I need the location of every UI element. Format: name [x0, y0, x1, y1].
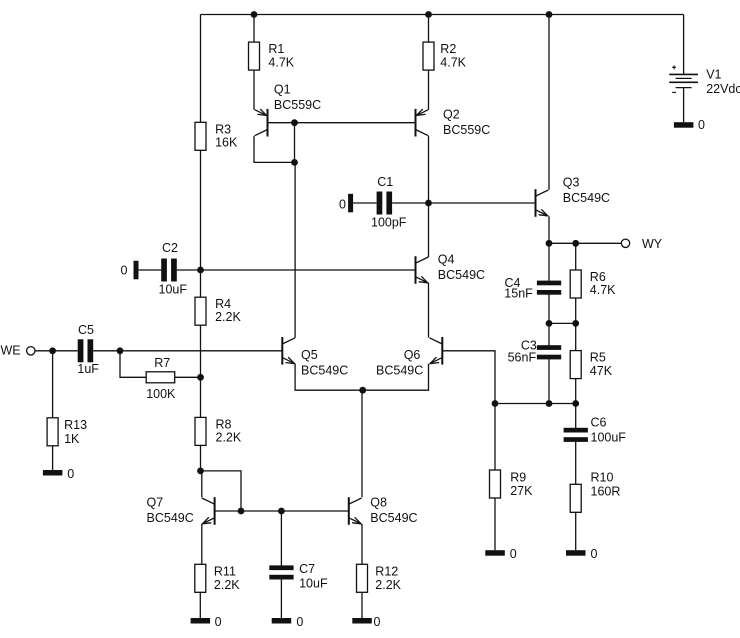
- terminal WE input: [1, 343, 36, 357]
- svg-text:C6: C6: [591, 416, 607, 430]
- junction C7-base wire: [278, 508, 285, 515]
- wire Q1 collector down to node: [254, 136, 295, 163]
- svg-text:2.2K: 2.2K: [215, 310, 241, 324]
- battery V1 22Vdc: [669, 65, 740, 96]
- wire Q7 base to Q8 base: [215, 510, 349, 512]
- svg-text:R12: R12: [375, 564, 398, 578]
- wire R1 to Q1 emitter: [253, 70, 255, 110]
- wire R2 to Q2 emitter: [428, 70, 430, 110]
- resistor R10 160R: [570, 470, 620, 512]
- svg-text:0: 0: [121, 263, 128, 277]
- wire Q6 base to feedback node: [442, 351, 495, 404]
- wire 0-stub to C1: [353, 202, 377, 204]
- transistor Q4 BC549C npn: [416, 252, 486, 284]
- svg-text:Q5: Q5: [301, 348, 318, 362]
- ground 0 below R11: [191, 615, 222, 629]
- wire rail to R3: [200, 15, 202, 123]
- junction Q1 collector node: [291, 159, 298, 166]
- ground 0 below C7: [272, 615, 304, 629]
- capacitor C5 1uF: [77, 323, 99, 376]
- node 0 stub at C2: [121, 261, 139, 280]
- wire rail to R1: [253, 15, 255, 43]
- resistor R12 2.2K: [357, 564, 402, 592]
- ground 0 below R9: [485, 547, 517, 561]
- svg-text:BC549C: BC549C: [370, 511, 417, 525]
- svg-text:0: 0: [215, 615, 222, 629]
- resistor R5 47K: [570, 351, 613, 379]
- ground 0 below R12: [352, 615, 380, 629]
- wire Q2 collector to C1 node: [428, 136, 430, 203]
- capacitor C7 10uF: [269, 562, 328, 590]
- svg-text:BC549C: BC549C: [301, 364, 348, 378]
- junction R5-C6: [572, 400, 579, 407]
- wire C5 to Q5 base: [93, 350, 282, 352]
- resistor R6 4.7K: [570, 270, 616, 298]
- svg-text:Q3: Q3: [563, 175, 580, 189]
- svg-text:0: 0: [67, 467, 74, 481]
- svg-text:R9: R9: [510, 470, 526, 484]
- wire Q4 emitter to Q6 collector: [428, 283, 430, 338]
- svg-text:R10: R10: [591, 470, 614, 484]
- wire V1 positive lead: [683, 15, 685, 75]
- svg-text:R6: R6: [590, 270, 606, 284]
- wire 0-stub to C2: [139, 269, 162, 271]
- svg-text:WE: WE: [1, 343, 21, 357]
- wire R12 to ground: [361, 592, 363, 618]
- svg-text:R3: R3: [215, 123, 231, 137]
- wire node to R9: [494, 404, 496, 471]
- svg-text:R11: R11: [214, 564, 236, 578]
- svg-text:47K: 47K: [590, 364, 613, 378]
- svg-text:1K: 1K: [64, 432, 80, 446]
- svg-text:0: 0: [510, 547, 517, 561]
- junction R7-column: [197, 374, 204, 381]
- junction R9-node: [492, 400, 499, 407]
- wire mid node to R6-R5 node: [549, 322, 576, 324]
- svg-text:Q2: Q2: [443, 107, 460, 121]
- svg-text:0: 0: [296, 615, 303, 629]
- junction output-R6: [572, 240, 579, 247]
- svg-text:22Vdc: 22Vdc: [706, 82, 740, 96]
- wire bottom feedback node: [495, 403, 576, 405]
- wire Q6 emitter to shared node: [363, 364, 429, 390]
- wire output node to R6: [575, 243, 577, 270]
- svg-text:BC549C: BC549C: [147, 511, 194, 525]
- svg-text:BC549C: BC549C: [563, 191, 610, 205]
- wire rail to Q3 collector: [548, 15, 550, 190]
- svg-text:BC549C: BC549C: [376, 364, 423, 378]
- junction R8-Q7: [197, 468, 204, 475]
- wire C6 to R10: [575, 442, 577, 484]
- svg-text:1uF: 1uF: [77, 362, 99, 376]
- resistor R9 27K: [490, 470, 534, 498]
- transistor Q7 BC549C npn: [147, 496, 215, 525]
- junction R6-R5: [572, 320, 579, 327]
- wire R5 to bottom node: [575, 379, 577, 404]
- wire C4 to mid node: [548, 294, 550, 323]
- resistor R13 1K: [47, 418, 87, 446]
- svg-text:C5: C5: [78, 323, 94, 337]
- wire node to Q3 base: [429, 202, 536, 204]
- svg-text:R7: R7: [154, 356, 170, 370]
- svg-text:0: 0: [698, 118, 705, 132]
- transistor Q3 BC549C npn: [536, 175, 611, 216]
- junction rail-Q3: [546, 11, 553, 18]
- svg-text:BC559C: BC559C: [443, 123, 490, 137]
- wire R8 to Q7 collector node: [200, 445, 202, 471]
- svg-text:R4: R4: [215, 297, 231, 311]
- wire collector-base tie Q7: [201, 471, 242, 511]
- transistor Q8 BC549C npn: [349, 496, 418, 525]
- svg-text:0: 0: [339, 198, 346, 212]
- resistor R7 100K: [146, 356, 176, 401]
- capacitor C3 56nF: [508, 338, 562, 364]
- resistor R3 16K: [195, 122, 238, 150]
- junction output-C4: [546, 240, 553, 247]
- svg-text:100K: 100K: [146, 387, 176, 401]
- svg-text:R8: R8: [216, 418, 232, 432]
- svg-text:0: 0: [374, 615, 381, 629]
- node 0 stub at C1: [339, 194, 353, 213]
- wire Q8 emitter to R12: [361, 524, 363, 564]
- junction C5-R7: [117, 347, 124, 354]
- wire node down to R7: [120, 351, 146, 378]
- wire node to C6: [575, 404, 577, 429]
- wire R3 to R4: [200, 150, 202, 297]
- terminal WY output: [621, 237, 662, 251]
- resistor R8 2.2K: [195, 417, 242, 445]
- svg-text:4.7K: 4.7K: [440, 55, 466, 69]
- junction WE-R13: [49, 347, 56, 354]
- wire node to C7: [280, 511, 282, 566]
- transistor Q5 BC549C npn: [282, 337, 348, 378]
- wire C1 to node: [392, 202, 428, 204]
- wire V1 negative lead: [683, 88, 685, 123]
- wire output node to WY terminal: [549, 242, 621, 244]
- capacitor C2 10uF: [159, 241, 188, 296]
- resistor R4 2.2K: [195, 297, 241, 325]
- svg-text:16K: 16K: [215, 136, 238, 150]
- svg-text:Q4: Q4: [438, 252, 455, 266]
- svg-text:10uF: 10uF: [299, 576, 328, 590]
- svg-text:2.2K: 2.2K: [214, 578, 240, 592]
- wire Q5 collector up to Q1 node: [294, 162, 296, 337]
- svg-text:C2: C2: [162, 241, 178, 255]
- wire R13 to ground: [52, 446, 54, 470]
- wire R10 to ground: [575, 512, 577, 550]
- resistor R1 4.7K: [249, 42, 295, 70]
- svg-text:0: 0: [591, 547, 598, 561]
- junction rail-R2: [425, 11, 432, 18]
- svg-text:2.2K: 2.2K: [216, 431, 242, 445]
- capacitor C4 15nF: [504, 276, 561, 301]
- capacitor C6 100uF: [564, 416, 627, 445]
- svg-text:56nF: 56nF: [508, 351, 537, 365]
- wire node to Q8 collector: [361, 390, 363, 497]
- wire node to Q4 collector: [428, 203, 430, 257]
- svg-text:100pF: 100pF: [371, 216, 407, 230]
- svg-text:2.2K: 2.2K: [375, 578, 401, 592]
- wire Q7 emitter to R11: [201, 524, 203, 564]
- wire Q7 collector up: [201, 471, 203, 497]
- junction rail-R1: [251, 11, 258, 18]
- wire R7 to R4-R8 column: [175, 376, 201, 378]
- wire Q3 emitter to output node: [548, 216, 550, 243]
- wire rail to R2: [428, 15, 430, 43]
- wire node to R13: [52, 351, 54, 418]
- wire WE to C5: [35, 350, 78, 352]
- ground 0 below R13: [43, 467, 74, 481]
- ground 0 below V1: [674, 118, 705, 132]
- svg-text:BC559C: BC559C: [274, 98, 321, 112]
- wire R6 to R5: [575, 298, 577, 351]
- wire base-collector tie Q1: [294, 123, 296, 163]
- transistor Q6 BC549C npn: [376, 337, 442, 378]
- transistor Q1 BC559C pnp: [255, 82, 321, 136]
- wire R11 to ground: [199, 592, 201, 618]
- wire C7 to ground: [280, 579, 282, 618]
- svg-text:R2: R2: [440, 42, 456, 56]
- svg-text:C1: C1: [377, 175, 393, 189]
- svg-text:10uF: 10uF: [159, 283, 188, 297]
- svg-text:R5: R5: [590, 351, 606, 365]
- ground 0 below R10: [566, 547, 598, 561]
- svg-text:Q1: Q1: [274, 82, 291, 96]
- svg-text:C7: C7: [299, 562, 315, 576]
- wire C3 to bottom node: [548, 359, 550, 404]
- svg-text:27K: 27K: [510, 484, 533, 498]
- capacitor C1 100pF: [371, 175, 407, 230]
- wire mid node to C3: [548, 323, 550, 345]
- svg-text:15nF: 15nF: [504, 287, 533, 301]
- resistor R2 4.7K: [423, 42, 467, 70]
- svg-text:Q7: Q7: [147, 496, 164, 510]
- transistor Q2 BC559C pnp: [416, 107, 491, 136]
- svg-text:160R: 160R: [591, 485, 621, 499]
- junction C2-R3R4: [197, 267, 204, 274]
- wire top +V rail: [201, 14, 684, 16]
- svg-text:100uF: 100uF: [591, 430, 627, 444]
- wire R9 to ground: [494, 498, 496, 550]
- junction C4-C3: [546, 320, 553, 327]
- junction C3-bottom: [546, 400, 553, 407]
- svg-text:BC549C: BC549C: [438, 268, 485, 282]
- svg-text:Q8: Q8: [370, 496, 387, 510]
- junction Q1 base node: [291, 119, 298, 126]
- junction Q5-Q6 emitters: [359, 387, 366, 394]
- wire R4 to R8: [200, 325, 202, 417]
- svg-text:V1: V1: [706, 68, 721, 82]
- wire Q5 emitter to shared node: [295, 364, 363, 390]
- svg-text:Q6: Q6: [404, 348, 421, 362]
- junction base tie: [238, 508, 245, 515]
- svg-text:4.7K: 4.7K: [590, 283, 616, 297]
- wire Q1 base to Q2 base: [268, 122, 416, 124]
- svg-text:R13: R13: [64, 418, 87, 432]
- svg-text:R1: R1: [268, 42, 284, 56]
- svg-text:WY: WY: [642, 237, 663, 251]
- svg-text:4.7K: 4.7K: [268, 55, 294, 69]
- wire node to Q4 base: [201, 269, 416, 271]
- resistor R11 2.2K: [195, 564, 240, 592]
- wire node to C4: [548, 243, 550, 281]
- junction C1 node: [425, 200, 432, 207]
- wire C2 to R3 column: [177, 269, 201, 271]
